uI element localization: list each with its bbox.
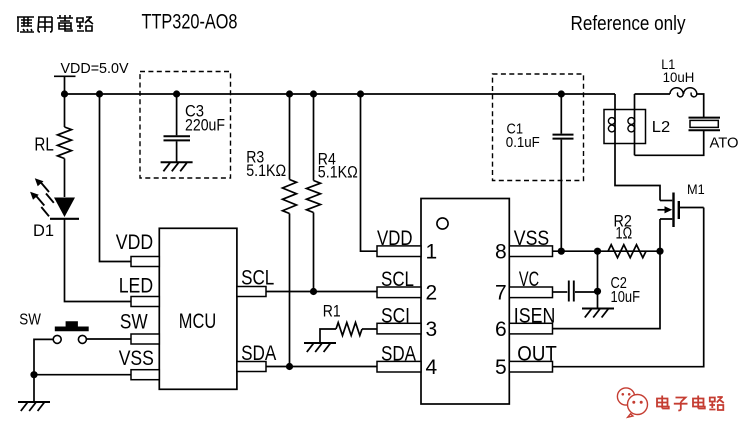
- logo icon (red chat bubbles): [617, 388, 647, 417]
- logo text 电子电路 (red) CJK sketch: [657, 396, 724, 411]
- MCU pin SW: [131, 334, 159, 344]
- IC U1 TTP320: [421, 199, 509, 405]
- L2 primary winding: [608, 118, 615, 125]
- svg-text:LED: LED: [119, 275, 153, 298]
- svg-text:ISEN: ISEN: [514, 304, 556, 327]
- wire SDA MCU to IC pin4: [266, 366, 377, 368]
- svg-text:VC: VC: [519, 268, 539, 291]
- MCU pin VDD: [131, 257, 159, 267]
- svg-text:VSS: VSS: [514, 227, 549, 250]
- resistor R4 5.1K: [313, 94, 315, 181]
- wire VSS pin8 row: [553, 250, 661, 252]
- wire ISEN to source node: [553, 251, 661, 328]
- D1 emission arrow 2: [36, 196, 49, 216]
- svg-text:0.1uF: 0.1uF: [506, 134, 540, 151]
- IC pin 4 SDA: [377, 361, 421, 372]
- svg-text:L2: L2: [652, 119, 671, 136]
- svg-text:SCL: SCL: [381, 268, 414, 291]
- L2 secondary winding: [634, 94, 636, 155]
- IC pin 8 VSS: [509, 246, 552, 257]
- M1 source stub: [660, 219, 672, 251]
- svg-text:5: 5: [495, 356, 507, 379]
- svg-text:1: 1: [426, 241, 438, 264]
- D1 emission arrow 1: [41, 183, 54, 203]
- M1 drain stub: [660, 200, 672, 202]
- capacitor C3 220uF: [176, 94, 178, 135]
- wire switch left to ground column: [34, 339, 53, 374]
- svg-text:TTP320-AO8: TTP320-AO8: [142, 11, 238, 34]
- svg-text:3: 3: [426, 318, 438, 341]
- resistor R3 5.1K: [289, 94, 291, 180]
- resonator ATO: [689, 117, 721, 119]
- svg-text:VDD: VDD: [377, 227, 413, 250]
- svg-text:10uH: 10uH: [663, 70, 695, 85]
- MCU pin LED: [131, 297, 159, 307]
- svg-text:VDD: VDD: [116, 231, 153, 254]
- svg-text:R1: R1: [323, 303, 341, 321]
- wire OUT to gate column: [553, 208, 704, 367]
- wire VDD rail to MCU VDD pin: [100, 94, 132, 262]
- wire top VDD rail: [65, 93, 616, 95]
- svg-text:OUT: OUT: [517, 343, 557, 366]
- M1 body arrow: [658, 209, 668, 211]
- MCU pin SCL: [237, 287, 266, 297]
- svg-text:ATO: ATO: [710, 136, 739, 152]
- wire IC pin1 to rail: [361, 94, 378, 251]
- ground (below SW): [18, 401, 50, 403]
- svg-text:SCI: SCI: [381, 304, 410, 327]
- dashed enclosure for C3: [140, 72, 231, 179]
- svg-text:SDA: SDA: [241, 342, 276, 365]
- transformer L2: [604, 110, 646, 144]
- IC pin1 marker circle: [437, 218, 448, 229]
- MCU block U-MCU: [159, 228, 237, 389]
- svg-text:5.1KΩ: 5.1KΩ: [318, 163, 358, 182]
- wire rail into L2 primary: [615, 94, 660, 201]
- IC pin 5 OUT: [509, 361, 552, 372]
- svg-text:D1: D1: [33, 221, 54, 240]
- wire switch right to MCU SW pin: [86, 338, 131, 340]
- ground (below R1): [304, 342, 336, 344]
- ground (below C3): [161, 161, 193, 163]
- wire VSS row: [34, 374, 131, 376]
- svg-text:2: 2: [426, 282, 438, 305]
- resistor RL: [64, 94, 66, 127]
- svg-text:SW: SW: [19, 312, 41, 329]
- wire SCL MCU to IC pin2: [266, 291, 377, 293]
- IC pin 1 VDD: [377, 246, 421, 257]
- svg-text:1Ω: 1Ω: [616, 224, 633, 243]
- svg-text:8: 8: [495, 241, 507, 264]
- svg-text:RL: RL: [34, 134, 53, 154]
- capacitor C2 10uF: [553, 291, 568, 293]
- svg-text:10uF: 10uF: [611, 289, 641, 306]
- M1 gate lead: [680, 207, 704, 209]
- junction dots on VDD rail: [61, 90, 68, 97]
- svg-text:5.1KΩ: 5.1KΩ: [246, 161, 286, 180]
- svg-text:Reference only: Reference only: [571, 12, 687, 35]
- svg-text:6: 6: [495, 318, 507, 341]
- IC pin 7 VC: [509, 287, 552, 298]
- wire L1 to ATO: [697, 94, 704, 117]
- MCU pin VSS: [131, 370, 159, 380]
- title 應用電路 (application circuit) CJK sketch: [17, 15, 93, 32]
- IC pin 2 SCL: [377, 287, 421, 298]
- wire L2 secondary top to L1: [635, 93, 671, 95]
- svg-text:M1: M1: [687, 182, 705, 197]
- wire down to ground: [33, 375, 35, 402]
- svg-text:7: 7: [495, 282, 507, 305]
- inductor L1 10uH: [670, 88, 697, 97]
- svg-text:SCL: SCL: [241, 266, 274, 289]
- power VDD stub: [54, 76, 76, 94]
- svg-text:SW: SW: [120, 311, 148, 334]
- IC pin 3 SCI: [377, 323, 421, 334]
- svg-text:VDD=5.0V: VDD=5.0V: [61, 60, 129, 77]
- IC pin 6 ISEN: [509, 323, 552, 334]
- MCU pin SDA: [237, 362, 266, 372]
- svg-text:MCU: MCU: [179, 310, 216, 333]
- svg-text:VSS: VSS: [119, 347, 154, 370]
- dashed enclosure for C1: [493, 74, 584, 181]
- resistor R2 1ohm: [608, 245, 646, 258]
- svg-text:220uF: 220uF: [185, 116, 225, 135]
- svg-text:SDA: SDA: [381, 343, 416, 366]
- ground (below C2): [582, 308, 614, 310]
- capacitor C1 0.1uF: [560, 94, 562, 134]
- wire ATO bottom to L2 secondary: [635, 131, 704, 156]
- LED D1: [54, 198, 75, 218]
- svg-text:4: 4: [426, 356, 438, 379]
